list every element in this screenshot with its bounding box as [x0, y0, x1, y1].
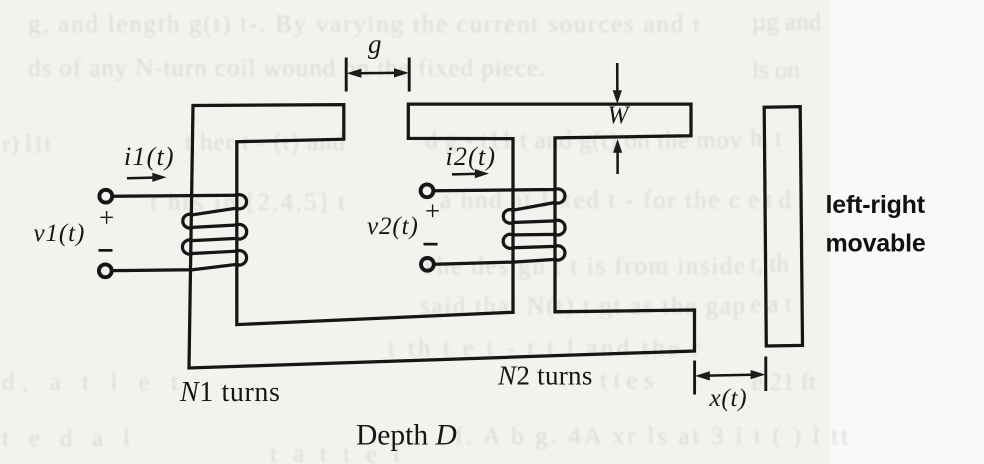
movable bar	[764, 107, 802, 346]
dimension g arrow	[353, 72, 402, 75]
svg-text:+: +	[99, 203, 114, 233]
arrowhead i2	[475, 169, 489, 178]
svg-text:left-right: left-right	[826, 191, 926, 219]
W up arrow	[616, 145, 619, 174]
svg-text:t, th: t, th	[750, 251, 789, 278]
winding N2	[435, 189, 565, 264]
svg-text:i1(t): i1(t)	[124, 142, 175, 171]
arrowhead g right	[394, 68, 409, 77]
dimension x(t) ticks	[695, 357, 766, 395]
svg-text:v1(t): v1(t)	[34, 220, 86, 247]
arrowhead i1	[152, 173, 166, 182]
svg-text:e a t: e a t	[750, 291, 792, 318]
svg-text:+: +	[425, 196, 440, 226]
arrowhead x(t) left	[695, 371, 710, 380]
i1 arrow	[127, 176, 158, 179]
arrowhead W up	[613, 139, 622, 153]
svg-text:The design t t is from inside: The design t t is from inside	[420, 253, 745, 280]
terminal v2 bottom	[421, 258, 434, 271]
dimension g ticks	[346, 58, 409, 92]
svg-text:e t d: e t d	[748, 187, 792, 214]
terminal v1 bottom	[99, 264, 112, 277]
svg-text:µg and: µg and	[752, 9, 822, 36]
svg-text:g: g	[368, 29, 382, 59]
svg-text:movable: movable	[826, 230, 926, 258]
svg-text:t t e s: t t e s	[600, 367, 653, 394]
svg-text:t e d a l: t e d a l	[2, 425, 130, 452]
winding N1	[114, 195, 247, 271]
svg-text:g, and length g(t) t-. By vary: g, and length g(t) t-. By varying the cu…	[28, 11, 700, 38]
svg-text:ds of any N-turn coil wound on: ds of any N-turn coil wound on the fixed…	[28, 55, 545, 82]
i2 arrow	[452, 173, 480, 176]
svg-text:f. A b g. 4A xr ls at 3 i t (: f. A b g. 4A xr ls at 3 i t ( ) l tt	[455, 423, 848, 450]
svg-text:Depth D: Depth D	[356, 420, 457, 452]
svg-text:x(t): x(t)	[709, 385, 748, 412]
label minus v2	[424, 243, 438, 246]
arrowhead g left	[347, 69, 362, 78]
terminal v1 top	[99, 190, 112, 203]
svg-text:i2(t): i2(t)	[446, 142, 497, 171]
svg-text:N2 turns: N2 turns	[497, 361, 593, 391]
dimension x(t) arrow	[701, 375, 759, 376]
arrowhead W down	[613, 90, 622, 104]
core (fixed magnetic core outline)	[189, 104, 695, 368]
label minus v1	[99, 249, 113, 252]
W down arrow	[616, 63, 619, 98]
svg-text:ls on: ls on	[752, 57, 800, 84]
svg-text:v2(t): v2(t)	[367, 213, 419, 240]
svg-text:r) l1t: r) l1t	[2, 131, 51, 158]
arrowhead x(t) right	[751, 370, 766, 379]
svg-text:W: W	[608, 102, 631, 129]
terminal v2 top	[421, 184, 434, 197]
svg-text:e 21 ft: e 21 ft	[752, 369, 816, 396]
svg-text:N1 turns: N1 turns	[179, 377, 280, 408]
